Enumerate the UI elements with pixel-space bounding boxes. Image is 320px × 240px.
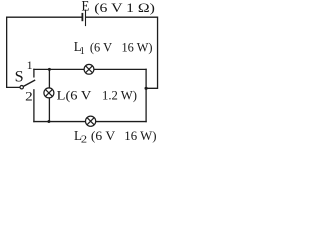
wire: battery negative terminal along top-left, down left side, to switch pivot [7,17,82,87]
node: junction of right connector and mid vertical [145,87,148,90]
lamp L (6 V 1.2 W) [44,88,54,98]
svg-text:1.2 W): 1.2 W) [102,88,137,103]
lamp L1 (6 V 16 W) [84,64,94,74]
svg-text:S: S [15,69,24,86]
svg-text:(6 V: (6 V [90,39,113,54]
wire: top rail from switch contact 1 through lamp L1 to right vertical [34,68,146,70]
lamp L2 (6 V 16 W) [86,116,96,126]
svg-text:1: 1 [80,46,85,57]
svg-text:1: 1 [27,58,33,72]
wire: bottom loop through lamp L2 [34,121,146,123]
svg-text:2: 2 [25,89,33,104]
svg-text:(6 V 1 Ω): (6 V 1 Ω) [94,0,155,15]
svg-text:16 W): 16 W) [124,128,156,143]
wire: battery positive terminal along top to right side, down to junction connector [86,17,158,88]
svg-text:(6 V: (6 V [91,128,116,143]
node: junction of top rail and lamp L branch [48,68,51,71]
svg-text:16 W): 16 W) [122,39,153,54]
node: junction of bottom wire and lamp L branch [47,120,50,123]
wire: lamp L branch vertical from top rail down to bottom wire [48,69,50,121]
battery E: short thick negative plate [81,13,83,21]
svg-text:L(6 V: L(6 V [57,88,92,103]
wire: right mid vertical from L1 output down to bottom wire [145,69,147,121]
switch S blade (thrown between contacts, pointing toward 1) [23,80,35,86]
battery E: long thin positive plate [85,10,87,26]
switch S contact 1 stub [33,69,35,77]
switch S pivot circle [20,86,23,89]
svg-text:E: E [82,0,90,14]
svg-text:2: 2 [81,135,87,145]
wire: switch contact 2 down to bottom-left corner [33,90,35,122]
